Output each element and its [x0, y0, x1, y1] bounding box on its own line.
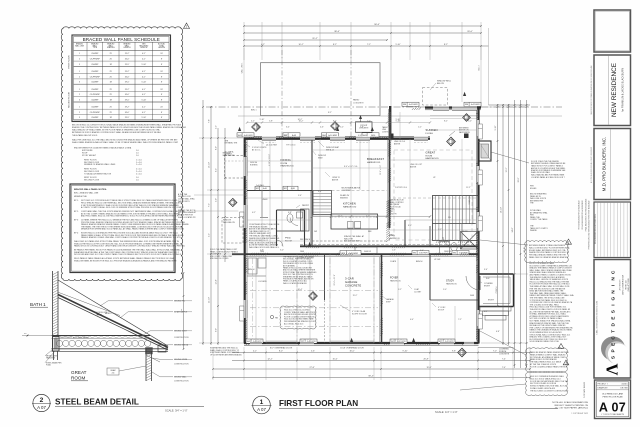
svg-text:5'-10": 5'-10" [395, 44, 400, 46]
stairs basement [313, 191, 332, 215]
left dimension chains [199, 100, 247, 345]
svg-text:© COPYRIGHT 2022: © COPYRIGHT 2022 [571, 412, 588, 415]
fireplace bump [479, 141, 492, 161]
svg-text:SHALL BE PANEL BE EDGES FOR R6: SHALL BE PANEL BE EDGES FOR R602.10.5 PR… [74, 259, 177, 262]
svg-text:A 07: A 07 [37, 405, 46, 410]
svg-text:CS-WSP: CS-WSP [91, 89, 99, 91]
svg-text:GREAT: GREAT [71, 370, 87, 375]
half wall note cloud [525, 241, 570, 263]
small delta triangles [566, 239, 572, 245]
svg-text:CS-PF/WSP: CS-PF/WSP [90, 94, 101, 96]
svg-text:4'-8": 4'-8" [288, 212, 292, 214]
window well [423, 81, 451, 105]
svg-text:22'-4" x 21'-8": 22'-4" x 21'-8" [334, 274, 336, 285]
svg-text:BETWEEN OF FOR IS BRACED CONTI: BETWEEN OF FOR IS BRACED CONTINUOUSLY SH… [72, 131, 161, 134]
svg-text:JOISTS: JOISTS [382, 131, 389, 133]
svg-text:SHALL PANEL BRACED A WALL AT W: SHALL PANEL BRACED A WALL AT WALL SHALL … [72, 141, 179, 144]
svg-text:CS-WSP: CS-WSP [91, 107, 99, 109]
svg-text:10'-2": 10'-2" [299, 121, 304, 123]
rotated wall tags [240, 124, 483, 329]
floor assembly with insulation [52, 336, 169, 352]
svg-text:FIRST FLOOR: FIRST FLOOR [69, 55, 71, 69]
detail left labels [45, 336, 90, 367]
svg-text:5'-10": 5'-10" [142, 117, 147, 119]
svg-text:1: 1 [260, 399, 264, 406]
svg-text:SOLID BRACED PANEL PER 6 THE: SOLID BRACED PANEL PER 6 THE [530, 340, 560, 343]
note: scale designations [552, 401, 588, 415]
svg-text:4'-2": 4'-2" [253, 350, 257, 352]
svg-text:REV# 01/03/2023 REV# 02/21/20: REV# 01/03/2023 REV# 02/21/2023 REV# [595, 214, 597, 244]
svg-text:7'-4": 7'-4" [502, 358, 506, 360]
svg-text:CONSTRUCTION: CONSTRUCTION [174, 364, 189, 366]
svg-text:6'-4": 6'-4" [410, 319, 414, 321]
micro rotated text next to title block [590, 65, 593, 183]
svg-text:ROOM: ROOM [285, 240, 292, 242]
svg-text:COUNTER: COUNTER [342, 190, 352, 192]
header tags mid wall row [340, 251, 469, 256]
svg-text:# 7 OF 18 TOTAL SHEETS: # 7 OF 18 TOTAL SHEETS [601, 413, 625, 416]
svg-text:16'-0": 16'-0" [125, 112, 130, 114]
svg-text:PANEL WOOD IS CONTINUOUSLY LEN: PANEL WOOD IS CONTINUOUSLY LENGTH AND LE… [74, 245, 185, 248]
svg-text:M.D. PRO BUILDERS, INC.: M.D. PRO BUILDERS, INC. [602, 137, 607, 191]
upper bay label [223, 153, 235, 157]
svg-text:24" x 36" SIZE PAPER. (ARCH-D): 24" x 36" SIZE PAPER. (ARCH-D) [555, 407, 589, 410]
exterior wall: bottom [244, 343, 479, 345]
svg-text:SECOND FLOOR: SECOND FLOOR [84, 179, 100, 181]
window sill below note [225, 141, 238, 156]
svg-text:DE / MB: DE / MB [620, 388, 628, 390]
extra room density lines [247, 130, 476, 343]
svg-text:PWD.: PWD. [285, 238, 292, 240]
svg-text:20'-0": 20'-0" [467, 31, 473, 33]
wall legend left [210, 248, 239, 260]
svg-text:PANELS BRACED OF AND LINE WALL: PANELS BRACED OF AND LINE WALL JOISTS SH… [81, 236, 181, 239]
svg-text:4x12 HDR: 4x12 HDR [471, 104, 480, 106]
svg-text:8'-2": 8'-2" [444, 121, 448, 123]
svg-text:for FRANKLIN & JACKIE BLACKBUR: for FRANKLIN & JACKIE BLACKBURN [622, 68, 625, 112]
wall arrows [238, 92, 466, 342]
window openings in exterior walls [243, 107, 479, 346]
svg-text:3: 3 [79, 117, 80, 119]
svg-text:4'-1": 4'-1" [142, 59, 146, 61]
interior reference lines [244, 186, 478, 306]
steel beam detail: bath 1 wall [53, 271, 59, 348]
header tags bottom wall [246, 339, 455, 343]
interior wall: kitchen/hall (y=246) [300, 245, 478, 247]
svg-text:BE PANEL THE: BE PANEL THE [225, 142, 238, 145]
svg-text:19'-5": 19'-5" [125, 99, 130, 101]
svg-text:4'-1": 4'-1" [142, 53, 146, 55]
svg-text:BWL 1: BWL 1 [251, 110, 257, 112]
svg-text:12'-2": 12'-2" [506, 167, 508, 172]
svg-text:4'-1": 4'-1" [142, 107, 146, 109]
svg-text:BREAKFAST: BREAKFAST [367, 157, 384, 161]
svg-text:19'-2": 19'-2" [125, 89, 130, 91]
title block: sheet number box [595, 380, 631, 419]
upper in-plan dim texts [251, 121, 472, 129]
svg-text:TOTAL ADJUSTMENT FACTOR: TOTAL ADJUSTMENT FACTOR [84, 172, 112, 175]
upper in-plan dim line [246, 121, 431, 123]
svg-text:3'-6": 3'-6" [298, 195, 302, 197]
svg-text:END R602.10.2.2 END: END R602.10.2.2 END [210, 258, 229, 260]
svg-text:LENGTH: LENGTH [389, 213, 397, 215]
svg-text:BELOW: BELOW [437, 83, 444, 85]
svg-text:15'-2": 15'-2" [353, 295, 358, 297]
svg-text:4'-6": 4'-6" [320, 127, 324, 129]
svg-text:LENGTH: LENGTH [158, 47, 166, 49]
delta triangle bottom right [563, 360, 569, 365]
kitchen island [331, 214, 378, 229]
patio slab [261, 63, 381, 116]
svg-text:19'-2": 19'-2" [125, 53, 130, 55]
far right vertical dims [579, 199, 588, 232]
svg-text:2x6 WALL: 2x6 WALL [256, 184, 264, 187]
svg-text:5'-10": 5'-10" [260, 119, 265, 121]
svg-text:ALL 6 IN ALL R602.10.3: ALL 6 IN ALL R602.10.3 [284, 322, 303, 325]
svg-text:4'-8": 4'-8" [360, 127, 364, 129]
leader lines [244, 138, 482, 311]
interior wall: breakfast/great (x=389.5) [388, 109, 390, 241]
great room inset dashed ceiling line [394, 150, 472, 240]
treated wood note cloud [526, 348, 570, 373]
interior wall: foyer left (x=430) [430, 254, 478, 300]
svg-text:EGRESS: EGRESS [250, 164, 258, 166]
svg-text:STUDY: STUDY [446, 280, 455, 283]
svg-text:BP 3:: BP 3: [74, 220, 79, 222]
exterior wall: right (great room) [476, 107, 478, 344]
revision delta triangle top right of cloud [184, 23, 190, 29]
room labels [281, 128, 458, 288]
svg-text:HALL: HALL [389, 234, 396, 237]
svg-text:FASTENERS: FASTENERS [459, 131, 470, 134]
revision cloud around braced wall schedule [61, 27, 182, 281]
svg-text:12'-2": 12'-2" [267, 358, 272, 360]
braced wall panel notes box [70, 184, 189, 273]
svg-text:COMPLY THE TABLE: COMPLY THE TABLE [530, 218, 548, 221]
beam pocket detail right [107, 345, 166, 375]
svg-text:1: 1 [79, 53, 80, 55]
svg-text:68'-4": 68'-4" [368, 375, 373, 377]
svg-text:WALL LINE 1: WALL LINE 1 [240, 63, 243, 74]
svg-text:HARDWOOD: HARDWOOD [446, 282, 458, 285]
svg-text:19'-5": 19'-5" [125, 82, 130, 84]
scattered dimension texts [252, 112, 498, 321]
svg-text:T: T [611, 330, 617, 333]
interior wall: dining east (x=312) [310, 139, 312, 246]
svg-text:22'-10": 22'-10" [209, 297, 211, 303]
svg-text:5'-2": 5'-2" [209, 233, 211, 237]
svg-text:2-STORY CLG: 2-STORY CLG [395, 187, 407, 189]
svg-text:BRACED WALL PANEL NOTES:: BRACED WALL PANEL NOTES: [74, 188, 107, 191]
kitchen counters [312, 241, 387, 254]
steel beam at wall [53, 337, 60, 352]
svg-text:3068: 3068 [470, 295, 474, 297]
steel beam detail title [32, 394, 204, 412]
svg-text:NOTE: ALL SCALE DESIGNATIONS: NOTE: ALL SCALE DESIGNATIONS [552, 401, 588, 404]
svg-text:PLAN: PLAN [46, 364, 51, 367]
svg-text:WALL BELOW: WALL BELOW [223, 221, 235, 224]
svg-text:PANEL R602.10.3 BRACED BRACED: PANEL R602.10.3 BRACED BRACED BRACED [529, 256, 568, 259]
svg-text:16'-0": 16'-0" [125, 59, 130, 61]
svg-text:5'-2": 5'-2" [216, 125, 218, 129]
svg-text:4'-1": 4'-1" [142, 89, 146, 91]
svg-text:UP 14R: UP 14R [434, 259, 441, 261]
svg-text:DN 2R: DN 2R [462, 231, 468, 233]
svg-text:3'-0": 3'-0" [280, 250, 284, 252]
interior wall: garage front (y=254) [232, 254, 478, 256]
svg-text:STORY HEIGHT: STORY HEIGHT [82, 155, 97, 157]
svg-text:4'-2": 4'-2" [484, 311, 488, 313]
svg-text:4'-2": 4'-2" [251, 121, 255, 123]
svg-text:3: 3 [79, 99, 80, 101]
schedule footnotes [72, 124, 186, 144]
leader lines to note blocks [460, 240, 528, 390]
exterior wall: great room top [425, 108, 481, 110]
plot date rotated text column [583, 201, 591, 398]
svg-text:WALL WALL WOOD END PANELS S: WALL WALL WOOD END PANELS S [249, 246, 280, 249]
svg-text:THE A TABLE BELOW SOLID: THE A TABLE BELOW SOLID [72, 134, 98, 137]
svg-text:HARDWOOD: HARDWOOD [389, 237, 401, 240]
svg-text:1: 1 [79, 71, 80, 73]
svg-text:8'x7' OVERHEAD DOOR: 8'x7' OVERHEAD DOOR [270, 347, 293, 350]
svg-text:38'-4": 38'-4" [334, 31, 340, 33]
bath 1 label [30, 302, 48, 307]
svg-text:WALL JOISTS: WALL JOISTS [178, 200, 190, 203]
svg-text:MINIMUM FOR WHERE AND SOLID PA: MINIMUM FOR WHERE AND SOLID PANEL ALL AT… [81, 228, 185, 231]
garage gyp note cloud [280, 306, 316, 329]
svg-text:20'-0": 20'-0" [518, 177, 520, 182]
right dimension chains [481, 100, 530, 368]
steel beam at great room wall [145, 347, 153, 354]
svg-text:A 07: A 07 [599, 401, 626, 415]
svg-text:19'-5": 19'-5" [125, 64, 130, 66]
additional scattered annotations [248, 145, 495, 312]
svg-text:GARAGE: GARAGE [345, 280, 357, 284]
svg-text:20675 COMMERCE DR: 20675 COMMERCE DR [623, 274, 625, 295]
top dimension chains [243, 24, 488, 47]
svg-text:19'-2": 19'-2" [125, 71, 130, 73]
svg-text:MINIMUM THE: MINIMUM THE [74, 196, 88, 198]
svg-text:HARDWOOD: HARDWOOD [426, 157, 440, 160]
4ft high wall note [389, 199, 404, 216]
svg-text:3: 3 [79, 82, 80, 84]
svg-text:AND FIELD PANEL R602.10.3 IN F: AND FIELD PANEL R602.10.3 IN FIELD FASTE… [81, 215, 179, 218]
svg-text:20'-8": 20'-8" [423, 358, 428, 360]
kitchen exhaust hood notes [530, 262, 575, 343]
great room label [71, 370, 88, 381]
svg-text:7'-2": 7'-2" [209, 203, 211, 207]
svg-text:4'-1": 4'-1" [142, 76, 146, 78]
svg-text:WALL LINE: WALL LINE [75, 44, 85, 47]
svg-text:BWL = BRACED WALL LINE: BWL = BRACED WALL LINE [74, 192, 99, 195]
svg-text:CS-WSP: CS-WSP [91, 53, 99, 55]
wind adjustment factors list [74, 147, 142, 182]
svg-text:6'-4": 6'-4" [286, 127, 290, 129]
svg-text:OLD HEMLOCK LANE: OLD HEMLOCK LANE [602, 393, 624, 396]
svg-text:4'-1": 4'-1" [142, 71, 146, 73]
detail right callout labels [100, 301, 192, 383]
svg-text:CS-WSP: CS-WSP [91, 117, 99, 119]
braced wall panel schedule table [72, 35, 171, 122]
svg-text:5050: 5050 [371, 135, 375, 137]
svg-text:LOCKERS: LOCKERS [258, 281, 267, 283]
svg-text:D: D [611, 323, 617, 327]
svg-text:6'-8": 6'-8" [496, 331, 500, 333]
svg-text:2: 2 [79, 94, 80, 96]
svg-text:13'-10": 13'-10" [209, 162, 211, 168]
svg-text:(2) 2x10 HDR: (2) 2x10 HDR [266, 145, 278, 147]
svg-text:CS-WSP: CS-WSP [91, 71, 99, 73]
svg-text:PATIO: PATIO [353, 99, 360, 102]
svg-text:16'-0": 16'-0" [125, 94, 130, 96]
interior wall: kitchen west shelves [301, 209, 310, 231]
window sill dashes inside rooms [250, 143, 454, 340]
svg-text:7'-4": 7'-4" [502, 367, 506, 369]
svg-text:C: C [611, 270, 617, 274]
column below beam [54, 351, 58, 360]
svg-text:CEILING WALL: CEILING WALL [174, 376, 187, 379]
svg-text:N: N [611, 290, 617, 294]
svg-text:ABOVE: ABOVE [332, 178, 339, 181]
svg-text:BENCH: BENCH [416, 261, 423, 263]
svg-text:PLOT DATE 11/02/22: PLOT DATE 11/02/22 [583, 382, 586, 398]
interior wall: garage right (x=381) [379, 254, 381, 343]
36 clear note [344, 235, 365, 243]
pwd room suite [260, 210, 305, 247]
svg-text:2: 2 [40, 397, 44, 404]
svg-text:1: 1 [79, 89, 80, 91]
svg-text:6'-2": 6'-2" [216, 168, 218, 172]
svg-text:SEE A.14: SEE A.14 [326, 148, 334, 151]
svg-text:2: 2 [79, 76, 80, 78]
svg-text:3'-1": 3'-1" [256, 127, 260, 129]
svg-text:AT 16 O.C.: AT 16 O.C. [252, 148, 261, 151]
svg-text:SOLID WOOD FOR: SOLID WOOD FOR [344, 241, 361, 243]
svg-text:G: G [611, 296, 617, 300]
exterior wall: great room step [389, 106, 391, 139]
bottom dimension chains [212, 347, 531, 380]
svg-text:2'-2": 2'-2" [418, 127, 422, 129]
svg-text:LENGTH: LENGTH [140, 47, 148, 49]
svg-text:9'-8": 9'-8" [452, 350, 456, 352]
interior wall: hall east / stairs (x=405) [404, 220, 406, 246]
svg-text:SPACING: SPACING [107, 46, 115, 49]
svg-text:16'-0": 16'-0" [349, 350, 354, 352]
svg-text:CEILING FASCIA: CEILING FASCIA [174, 344, 189, 347]
svg-text:4x10 HDR: 4x10 HDR [244, 135, 253, 137]
diamond at great room window [463, 114, 471, 122]
svg-text:ENTRY: ENTRY [484, 285, 491, 287]
svg-text:BRACED THE CONTINUOUSLY BETWEE: BRACED THE CONTINUOUSLY BETWEEN PANEL WO… [72, 126, 186, 129]
svg-text:15'-6": 15'-6" [332, 358, 337, 360]
svg-text:ABOVE: ABOVE [394, 142, 401, 145]
svg-text:9'-10": 9'-10" [402, 350, 407, 352]
svg-text:REFLECT SHEETS PRINTED ON: REFLECT SHEETS PRINTED ON [555, 405, 589, 407]
svg-text:5/8 TYPE X GYP BD: 5/8 TYPE X GYP BD [297, 258, 314, 260]
plumbing note left [178, 209, 238, 219]
interior wall hatching [250, 200, 475, 336]
kitchen dim row [311, 215, 431, 217]
svg-text:C: C [611, 336, 617, 340]
svg-text:STEEL BEAM DETAIL: STEEL BEAM DETAIL [55, 398, 139, 407]
svg-text:16'-10": 16'-10" [501, 207, 503, 213]
svg-text:2: 2 [79, 112, 80, 114]
svg-text:FLOOR LOCATED A TABLE PANEL TH: FLOOR LOCATED A TABLE PANEL THE EDG [530, 365, 568, 368]
garage fire rating note [283, 256, 317, 285]
svg-text:BP 1:: BP 1: [74, 200, 79, 202]
porch slab line [478, 347, 514, 349]
svg-text:6'-2": 6'-2" [252, 212, 256, 214]
svg-text:4x10: 4x10 [291, 188, 295, 190]
svg-text:8'-2": 8'-2" [333, 121, 337, 123]
svg-text:5'-10": 5'-10" [142, 82, 147, 84]
egress note cloud [526, 372, 569, 396]
svg-text:SHALL LOCATED PR: SHALL LOCATED PR [178, 216, 196, 219]
svg-text:5'-2": 5'-2" [284, 135, 288, 137]
entry porch bump [479, 274, 514, 307]
first floor / second floor rotated labels [69, 55, 71, 108]
svg-text:TYP. U.N.O.: TYP. U.N.O. [286, 145, 296, 147]
svg-text:7'-8": 7'-8" [209, 119, 211, 123]
svg-text:ABOVE: ABOVE [410, 165, 417, 168]
svg-text:7'-2": 7'-2" [367, 44, 371, 46]
svg-text:FIRST FLOOR PLAN: FIRST FLOOR PLAN [279, 399, 358, 408]
garage door openings [266, 341, 374, 350]
svg-text:HARDWOOD: HARDWOOD [390, 280, 402, 283]
svg-text:3068 DR: 3068 DR [364, 251, 372, 253]
svg-text:SCALE: 3/4" = 1'-0": SCALE: 3/4" = 1'-0" [165, 408, 188, 412]
svg-text:REF SPACE: REF SPACE [300, 238, 311, 241]
svg-text:2 x 1.0: 2 x 1.0 [136, 173, 142, 175]
svg-text:LOCATED PANEL A 12 BELOW FLOOR: LOCATED PANEL A 12 BELOW FLOOR T [531, 176, 566, 179]
svg-text:A COMPLY COMPLY BE ALL IN FLOO: A COMPLY COMPLY BE ALL IN FLOOR OF MINIM… [81, 206, 185, 209]
window sill note left [178, 193, 247, 203]
svg-text:CONCRETE: CONCRETE [345, 284, 361, 288]
wall column label left [382, 126, 389, 133]
header tags great room top [402, 102, 481, 106]
closet off dining [247, 191, 262, 218]
svg-text:N: N [611, 277, 617, 281]
svg-text:8'-2": 8'-2" [333, 44, 337, 46]
svg-text:2868: 2868 [300, 251, 304, 253]
svg-text:SEATING: SEATING [340, 196, 348, 199]
fireplace note block [491, 152, 566, 179]
svg-text:31'-2": 31'-2" [312, 38, 318, 40]
svg-text:5'-10": 5'-10" [495, 125, 497, 130]
stairs main [433, 196, 480, 241]
svg-text:11'-2": 11'-2" [466, 187, 471, 189]
mudroom fixtures [247, 258, 266, 276]
title block: revision table [594, 202, 631, 258]
svg-text:4'-1": 4'-1" [142, 112, 146, 114]
exterior wall: top (dining/breakfast) [244, 137, 430, 139]
svg-text:ROOM: ROOM [281, 163, 288, 165]
svg-text:LENGTH: LENGTH [124, 47, 132, 49]
svg-text:2x6: 2x6 [112, 373, 115, 375]
title block: aspect design logo box [594, 260, 631, 379]
svg-text:BRACED WALL PANEL SCHEDULE: BRACED WALL PANEL SCHEDULE [83, 37, 160, 42]
svg-text:2: 2 [79, 59, 80, 61]
svg-text:CS-WSP: CS-WSP [91, 64, 99, 66]
svg-text:CONSTRUCTION: CONSTRUCTION [174, 381, 189, 383]
svg-text:24'-8": 24'-8" [512, 227, 514, 232]
svg-text:8'-2": 8'-2" [444, 44, 448, 46]
svg-text:12'-4": 12'-4" [216, 279, 218, 284]
column label great room [449, 128, 470, 137]
svg-text:7'-0": 7'-0" [493, 350, 497, 352]
svg-text:19'-8": 19'-8" [426, 367, 431, 369]
svg-text:4'-2": 4'-2" [261, 44, 265, 46]
